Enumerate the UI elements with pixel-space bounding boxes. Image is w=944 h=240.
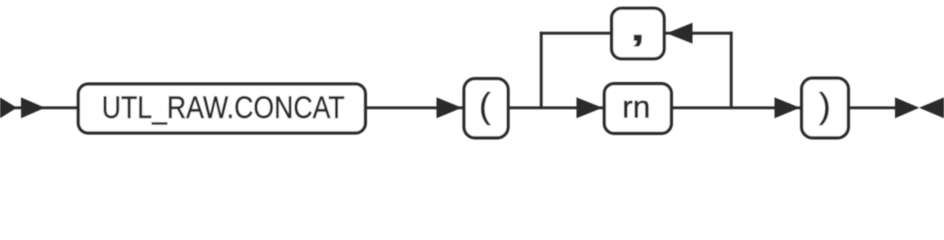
box rn [604,84,671,134]
wire: main rail [0,106,896,109]
svg-text:UTL_RAW.CONCAT: UTL_RAW.CONCAT [102,89,345,125]
loop arrowhead into , (pointing left) [667,23,693,44]
start arrowhead 1 [0,97,17,118]
end arrowhead left-pointing [919,97,944,118]
arrowhead into ) [775,97,801,118]
box UTL_RAW.CONCAT [78,84,365,133]
svg-text:(: ( [479,87,491,126]
box , [612,8,665,59]
end arrowhead right-pointing [895,97,919,118]
svg-text:): ) [819,87,831,126]
box ( [464,79,508,138]
start arrowhead 2 [21,97,45,118]
wire: loop left vertical [540,32,543,108]
arrowhead into ( [437,97,463,118]
wire: loop right vertical [730,32,733,108]
box ) [802,78,849,138]
wire: loop top rail [540,32,733,35]
svg-text:rn: rn [622,89,650,125]
arrowhead into rn [577,97,603,118]
svg-text:,: , [631,8,645,49]
